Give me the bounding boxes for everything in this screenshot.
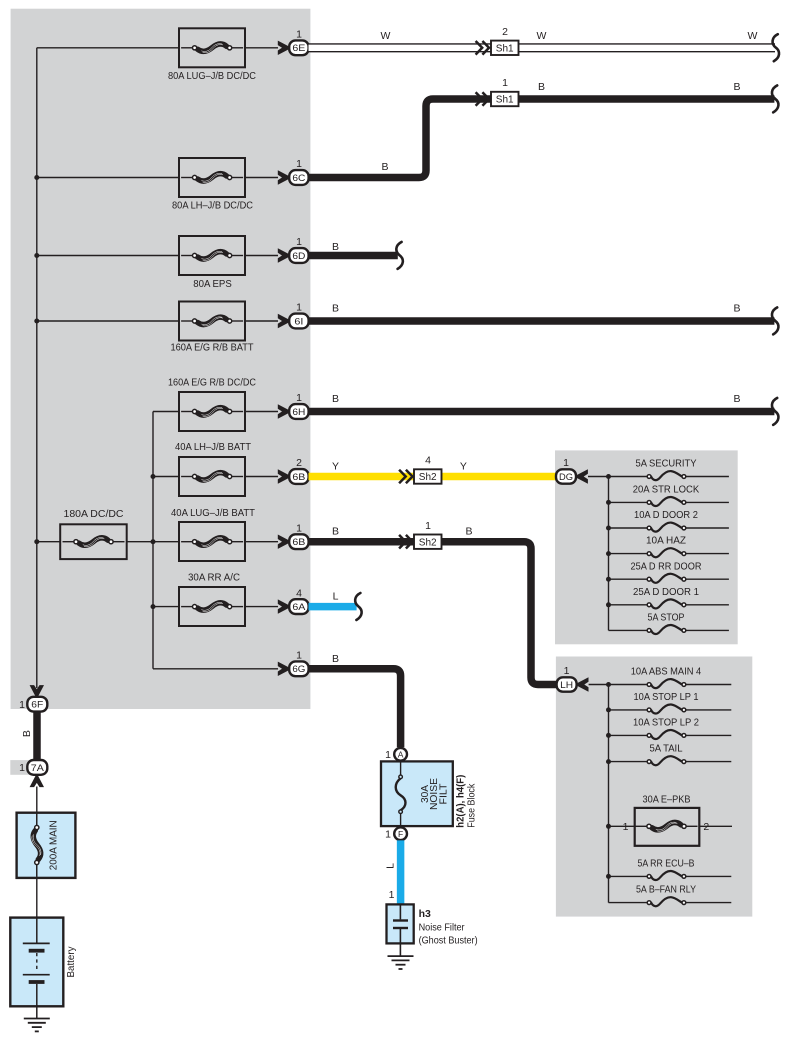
svg-text:B: B: [733, 393, 740, 405]
wire link to connector 6C: [245, 177, 278, 179]
svg-text:1: 1: [296, 392, 302, 404]
svg-text:30A RR A/C: 30A RR A/C: [188, 572, 240, 584]
svg-text:1: 1: [296, 236, 302, 248]
off-page curl B 6D: [396, 242, 402, 269]
svg-text:2: 2: [502, 26, 508, 38]
svg-text:6B: 6B: [292, 537, 305, 548]
svg-text:Sh1: Sh1: [496, 95, 514, 106]
svg-text:Y: Y: [460, 460, 467, 472]
svg-text:6C: 6C: [292, 173, 305, 184]
fuse 5A RR ECU-B: [609, 858, 732, 881]
ground battery: [24, 1019, 50, 1032]
off-page curl L 6A: [355, 593, 361, 620]
svg-text:(Ghost Buster): (Ghost Buster): [419, 935, 478, 947]
svg-text:5A B–FAN RLY: 5A B–FAN RLY: [636, 884, 696, 896]
svg-text:F: F: [398, 829, 403, 839]
svg-text:A: A: [398, 750, 404, 760]
svg-text:6B: 6B: [292, 472, 305, 483]
wire to fusible link 6I: [37, 320, 179, 322]
off-page curl B 6I: [772, 307, 778, 334]
svg-text:Fuse Block: Fuse Block: [467, 783, 478, 828]
svg-text:h3: h3: [419, 908, 431, 920]
shield connector Sh2 pin 4: [399, 455, 441, 484]
svg-text:2: 2: [296, 457, 302, 469]
svg-text:10A D DOOR 2: 10A D DOOR 2: [634, 509, 698, 521]
svg-text:200A MAIN: 200A MAIN: [48, 820, 60, 870]
off-page curl B 6H: [772, 398, 778, 425]
svg-text:2: 2: [703, 821, 709, 833]
fusible link 30A RR A/C: [179, 572, 245, 626]
svg-text:LH: LH: [560, 680, 573, 691]
wire B 6C riser to Sh1: [309, 99, 492, 178]
wire link to connector 6D: [245, 255, 278, 257]
wire to fusible link 6H: [153, 411, 179, 413]
svg-text:1: 1: [296, 158, 302, 170]
connector 6F pin 1: [19, 697, 47, 712]
wire B 6B to Sh2: [309, 526, 415, 542]
connector 6C pin 1: [278, 158, 309, 185]
wire Y Sh2 to DG: [442, 460, 557, 476]
svg-text:Y: Y: [332, 460, 339, 472]
fusible link 180A DC/DC: [60, 508, 127, 559]
wire link to connector 6B1: [245, 541, 278, 543]
battery: [10, 918, 77, 1019]
connector 6A pin 4: [278, 587, 309, 614]
svg-text:B: B: [332, 393, 339, 405]
main gray block: [11, 9, 311, 709]
wire main bus vertical: [36, 48, 38, 688]
svg-text:1: 1: [19, 699, 25, 711]
fusible link 80A LUG-J/B DC/DC: [168, 28, 256, 82]
shield connector Sh1 pin 1: [476, 77, 519, 106]
node junction 6A: [151, 604, 156, 609]
svg-text:Sh2: Sh2: [419, 537, 437, 548]
connector 6B pin 1: [278, 522, 309, 549]
svg-text:1: 1: [563, 457, 569, 469]
node DG bus junctions: [606, 474, 611, 479]
svg-text:1: 1: [502, 77, 508, 89]
fusible link 200A MAIN: [17, 813, 76, 878]
svg-text:20A STR LOCK: 20A STR LOCK: [633, 484, 700, 496]
svg-text:160A E/G R/B DC/DC: 160A E/G R/B DC/DC: [168, 377, 256, 389]
fuse 5A STOP: [609, 612, 729, 635]
svg-text:5A STOP: 5A STOP: [648, 612, 685, 624]
svg-text:1: 1: [296, 650, 302, 662]
wire W 6E to Sh1: [309, 30, 492, 48]
svg-text:B: B: [381, 161, 388, 173]
svg-text:B: B: [538, 81, 545, 93]
wire B 6H to off-page: [309, 393, 775, 412]
svg-text:5A TAIL: 5A TAIL: [650, 743, 683, 755]
gray fuse box DG: [555, 450, 738, 644]
fuse block 30A NOISE FILT: [381, 761, 453, 826]
svg-text:Sh1: Sh1: [496, 44, 514, 55]
svg-text:10A HAZ: 10A HAZ: [646, 535, 687, 547]
fuse 10A STOP LP 1: [609, 691, 732, 714]
wire B 6F to 7A: [21, 712, 37, 761]
wire bus to 180A: [37, 541, 60, 543]
svg-text:5A RR ECU–B: 5A RR ECU–B: [638, 858, 695, 870]
wire L 6A stub: [309, 591, 357, 607]
svg-text:6F: 6F: [31, 700, 43, 711]
svg-text:1: 1: [425, 520, 431, 532]
svg-text:30A E–PKB: 30A E–PKB: [643, 794, 691, 806]
wire Y 6B to Sh2: [309, 460, 415, 476]
svg-text:10A STOP LP 1: 10A STOP LP 1: [634, 691, 699, 703]
svg-text:6A: 6A: [292, 602, 306, 613]
fuse 10A D DOOR 2: [609, 509, 729, 532]
off-page curl W: [773, 34, 779, 61]
svg-text:10A ABS MAIN 4: 10A ABS MAIN 4: [631, 666, 702, 678]
svg-text:1: 1: [385, 828, 391, 840]
wire W Sh1 to off-page: [519, 30, 776, 48]
node LH bus junctions: [606, 682, 611, 687]
svg-text:7A: 7A: [31, 763, 45, 774]
label h2(A), h4(F) Fuse Block: [456, 775, 478, 828]
svg-text:1: 1: [296, 302, 302, 314]
node junction 180A: [34, 539, 39, 544]
fusible link 40A LH-J/B BATT: [175, 441, 252, 496]
svg-text:40A LH–J/B BATT: 40A LH–J/B BATT: [175, 441, 252, 453]
node junction 6C: [34, 175, 39, 180]
wire B 6D stub: [309, 241, 398, 256]
wire B 6I to off-page: [309, 303, 775, 322]
wire to fusible link 6D: [37, 255, 179, 257]
svg-text:80A EPS: 80A EPS: [193, 278, 232, 290]
svg-text:6D: 6D: [292, 251, 305, 262]
wire DG to bus: [588, 476, 609, 478]
wire to fusible link 6A: [153, 606, 179, 608]
connector 6H pin 1: [278, 392, 309, 419]
fusible link 160A E/G R/B DC/DC: [168, 377, 256, 432]
shield connector Sh2 pin 1: [399, 520, 441, 549]
wire link to connector 6H: [245, 411, 278, 413]
connector 6B pin 2: [278, 457, 309, 484]
node junction 6B2: [151, 474, 156, 479]
fuse 25A D RR DOOR: [609, 560, 729, 583]
connector 6D pin 1: [278, 236, 309, 263]
wire link to connector 6B2: [245, 476, 278, 478]
fuse 5A TAIL: [609, 743, 732, 766]
svg-text:B: B: [465, 526, 472, 538]
svg-text:Sh2: Sh2: [419, 472, 437, 483]
connector LH pin 1: [557, 665, 589, 692]
fusible link 30A E-PKB: [609, 794, 733, 846]
svg-text:h2(A), h4(F): h2(A), h4(F): [456, 775, 467, 828]
wire bus2 vertical: [152, 412, 154, 669]
wire to fusible link 6E: [37, 47, 179, 49]
wire link to connector 6E: [245, 47, 278, 49]
svg-text:W: W: [537, 30, 547, 42]
wire B Sh1 to off-page: [519, 81, 775, 99]
connector DG pin 1: [556, 457, 588, 484]
fuse 10A ABS MAIN 4: [609, 666, 732, 689]
wire L F to noise filter: [385, 840, 401, 904]
wire arrow into 6F: [30, 685, 44, 697]
svg-text:L: L: [333, 591, 339, 603]
svg-text:B: B: [332, 653, 339, 665]
svg-text:1: 1: [296, 29, 302, 41]
svg-text:1: 1: [385, 749, 391, 761]
connector 6I pin 1: [278, 302, 309, 329]
fusible link 80A EPS: [179, 236, 245, 290]
svg-text:5A SECURITY: 5A SECURITY: [636, 458, 697, 470]
wire bus2 to connector 6G: [153, 668, 278, 670]
fuse 20A STR LOCK: [609, 484, 729, 507]
svg-text:4: 4: [425, 455, 431, 467]
svg-text:B: B: [733, 303, 740, 315]
svg-text:Battery: Battery: [65, 946, 77, 978]
connector F pin 1: [385, 827, 407, 840]
svg-text:40A LUG–J/B BATT: 40A LUG–J/B BATT: [171, 507, 256, 519]
capacitor noise filter h3 (Ghost Buster): [387, 904, 478, 956]
svg-text:6G: 6G: [292, 664, 305, 675]
svg-text:W: W: [748, 30, 758, 42]
fuse 10A HAZ: [609, 535, 729, 558]
node junction 6D: [34, 253, 39, 258]
svg-text:80A LUG–J/B DC/DC: 80A LUG–J/B DC/DC: [168, 70, 256, 82]
svg-text:B: B: [332, 241, 339, 253]
wire LH box bus vertical: [608, 685, 610, 903]
svg-text:160A E/G R/B BATT: 160A E/G R/B BATT: [171, 341, 255, 353]
connector 7A pin 1: [19, 760, 47, 775]
wire 180A to bus2: [127, 541, 153, 543]
svg-text:Noise Filter: Noise Filter: [419, 921, 465, 933]
wire DG box bus vertical: [608, 477, 610, 631]
svg-text:10A STOP LP 2: 10A STOP LP 2: [633, 717, 699, 729]
svg-text:25A D RR DOOR: 25A D RR DOOR: [631, 560, 702, 572]
fuse 10A STOP LP 2: [609, 717, 732, 740]
svg-text:L: L: [385, 863, 397, 869]
svg-text:80A LH–J/B DC/DC: 80A LH–J/B DC/DC: [172, 200, 253, 212]
fuse 25A D DOOR 1: [609, 586, 729, 609]
node junction 6B1: [151, 539, 156, 544]
fusible link 40A LUG-J/B BATT: [171, 507, 256, 561]
wire 7A to 200A MAIN: [36, 787, 38, 813]
ground noise filter: [388, 956, 414, 969]
fuse 5A B-FAN RLY: [609, 884, 732, 907]
gray block behind 7A: [10, 760, 45, 775]
svg-text:1: 1: [389, 889, 395, 901]
gray fuse box LH: [556, 657, 752, 917]
svg-text:B: B: [332, 526, 339, 538]
svg-text:B: B: [332, 303, 339, 315]
fusible link 80A LH-J/B DC/DC: [172, 158, 253, 212]
wire to fusible link 6B2: [153, 476, 179, 478]
wire link to connector 6A: [245, 606, 278, 608]
wire B Sh2 to LH: [442, 526, 557, 685]
svg-text:4: 4: [296, 587, 302, 599]
svg-text:25A D DOOR 1: 25A D DOOR 1: [633, 586, 699, 598]
svg-text:B: B: [733, 81, 740, 93]
svg-text:6E: 6E: [292, 43, 305, 54]
connector 6E pin 1: [278, 29, 309, 56]
svg-text:1: 1: [623, 821, 629, 833]
svg-text:B: B: [21, 730, 33, 737]
svg-text:DG: DG: [559, 472, 573, 483]
wire 200A MAIN to battery: [36, 878, 38, 918]
svg-text:6H: 6H: [292, 407, 305, 418]
node junction 6I: [34, 319, 39, 324]
wire LH to bus: [589, 684, 609, 686]
svg-text:1: 1: [296, 522, 302, 534]
shield connector Sh1 pin 2: [476, 26, 519, 55]
off-page curl B Sh1: [772, 85, 778, 112]
svg-text:1: 1: [564, 665, 570, 677]
wire to fusible link 6C: [37, 177, 179, 179]
wire link to connector 6I: [245, 320, 278, 322]
wire arrow into 7A from below: [30, 776, 44, 788]
svg-text:6I: 6I: [294, 316, 303, 327]
svg-text:180A DC/DC: 180A DC/DC: [64, 508, 124, 520]
fusible link 160A E/G R/B BATT: [171, 302, 255, 354]
wire B 6G to noise filter: [309, 653, 401, 747]
svg-text:W: W: [381, 30, 391, 42]
wire to fusible link 6B1: [153, 541, 179, 543]
svg-text:FILT: FILT: [438, 784, 449, 805]
connector A pin 1: [385, 748, 407, 761]
fuse 5A SECURITY: [609, 458, 729, 481]
svg-text:1: 1: [19, 762, 25, 774]
connector 6G pin 1: [278, 650, 309, 677]
